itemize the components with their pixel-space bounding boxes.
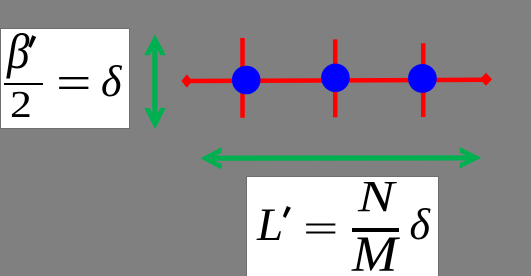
- horizontal arrow right head: [460, 147, 481, 169]
- numerator N: [358, 175, 394, 219]
- denominator 2: [10, 86, 32, 124]
- node circle 3: [408, 64, 437, 93]
- left diamond end: [181, 74, 192, 87]
- right diamond end: [480, 73, 492, 86]
- tick 3: [421, 43, 426, 117]
- vertical arrow top head: [144, 35, 166, 56]
- node circle 1: [232, 66, 261, 95]
- red chain line: [187, 80, 485, 81]
- formula box 1: beta'/2 = delta: [1, 29, 129, 128]
- node circle 2: [321, 64, 350, 93]
- delta 2: [410, 203, 430, 247]
- formula box 2: L' = N/M delta: [247, 177, 438, 276]
- horizontal arrow left head: [200, 147, 221, 169]
- equals sign 2: [303, 209, 338, 249]
- denominator M: [352, 230, 397, 276]
- fraction bar 1: [4, 83, 44, 85]
- L prime: [257, 202, 283, 249]
- delta 1: [101, 60, 121, 104]
- prime of beta: [28, 35, 36, 48]
- prime of L: [283, 206, 291, 218]
- beta prime numerator: [7, 26, 29, 76]
- fraction bar 2: [352, 228, 399, 232]
- tick 1: [240, 38, 245, 118]
- equals sign 1: [56, 60, 91, 108]
- horizontal green double arrow shaft: [211, 155, 473, 161]
- vertical green double arrow shaft: [152, 45, 157, 119]
- tick 2: [333, 39, 338, 117]
- vertical arrow bottom head: [144, 108, 166, 129]
